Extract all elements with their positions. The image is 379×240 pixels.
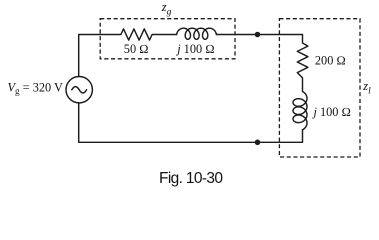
svg-text:50 Ω: 50 Ω — [124, 42, 149, 56]
svg-text:200 Ω: 200 Ω — [315, 54, 346, 68]
svg-text:j 100 Ω: j 100 Ω — [312, 105, 351, 119]
svg-text:j 100 Ω: j 100 Ω — [175, 42, 214, 56]
svg-text:Fig. 10-30: Fig. 10-30 — [159, 170, 223, 187]
